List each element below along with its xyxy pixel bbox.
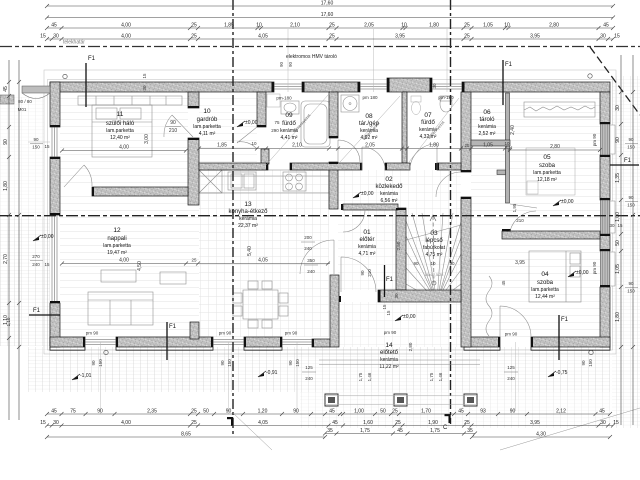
wall room11 bottom	[92, 187, 188, 196]
svg-text:80 / 80: 80 / 80	[18, 99, 32, 104]
svg-text:10: 10	[251, 141, 257, 146]
svg-text:30: 30	[432, 83, 437, 89]
svg-text:1,00: 1,00	[615, 212, 621, 222]
svg-text:30: 30	[615, 105, 621, 111]
svg-text:35: 35	[327, 428, 333, 434]
svg-text:3,95: 3,95	[530, 33, 540, 39]
svg-text:2,80: 2,80	[550, 144, 560, 150]
svg-text:45: 45	[51, 22, 57, 28]
section line B-B horizontal y=215.7	[0, 215, 640, 217]
wall exterior bottom-right seg1	[464, 337, 500, 347]
svg-text:75: 75	[274, 120, 280, 125]
svg-text:90: 90	[581, 360, 586, 366]
svg-text:09: 09	[285, 112, 293, 119]
svg-text:4,05: 4,05	[258, 258, 268, 264]
room label 05 szoba	[533, 154, 561, 183]
svg-text:25: 25	[191, 420, 197, 426]
svg-text:1,75: 1,75	[430, 428, 440, 434]
wall kitchen north seg3	[385, 163, 410, 170]
svg-text:10: 10	[401, 22, 407, 28]
svg-text:150: 150	[588, 359, 593, 367]
svg-text:előtető: előtető	[380, 350, 399, 356]
svg-text:90: 90	[3, 139, 9, 145]
sofa room 12	[88, 292, 153, 325]
svg-text:konyha-étkező: konyha-étkező	[228, 209, 268, 215]
svg-text:15: 15	[40, 33, 46, 39]
dim row bottom 3 left 8,65	[45, 431, 327, 439]
diagonal property line top right	[590, 47, 640, 115]
svg-text:25: 25	[395, 420, 401, 426]
plaster brackets under bottom walls	[50, 347, 85, 350]
svg-text:közlekedő: közlekedő	[375, 184, 403, 190]
level marker -0,91	[258, 373, 264, 377]
svg-text:150: 150	[295, 359, 300, 367]
svg-text:50: 50	[380, 408, 386, 414]
tv bench room 12	[160, 272, 186, 284]
svg-text:15: 15	[386, 310, 391, 316]
porch columns	[325, 394, 338, 406]
svg-text:F1: F1	[33, 308, 41, 314]
level marker -1,01	[72, 376, 78, 380]
svg-text:15: 15	[40, 420, 46, 426]
wall 10|09 lower	[261, 149, 269, 164]
svg-text:10: 10	[203, 108, 211, 115]
svg-text:25: 25	[191, 258, 197, 263]
svg-text:pm 90: pm 90	[384, 330, 397, 335]
svg-text:elektromos HMV tároló: elektromos HMV tároló	[286, 54, 337, 60]
svg-text:4,50: 4,50	[137, 261, 143, 271]
svg-text:45: 45	[599, 408, 605, 414]
svg-text:30: 30	[609, 223, 615, 228]
svg-text:150: 150	[32, 145, 40, 150]
svg-text:240: 240	[305, 376, 313, 381]
svg-text:90: 90	[288, 61, 293, 67]
wall entry bottom	[378, 290, 461, 302]
wall interior 09|08 upper	[329, 92, 338, 138]
wall stair left	[396, 208, 406, 290]
svg-text:45: 45	[458, 408, 464, 414]
svg-text:90: 90	[628, 281, 634, 286]
svg-text:kerámia: kerámia	[478, 124, 496, 130]
porch steps	[319, 360, 480, 365]
room label 06 tarolo	[478, 109, 496, 137]
svg-text:45: 45	[397, 428, 403, 434]
svg-text:1,10: 1,10	[6, 317, 11, 326]
wall exterior left lower corner	[50, 303, 60, 347]
svg-text:1,80: 1,80	[3, 181, 9, 191]
room label 01 eloter	[358, 229, 376, 257]
svg-text:1,46: 1,46	[438, 372, 443, 381]
svg-text:fürdő: fürdő	[282, 121, 296, 127]
room label 10 gardrob	[193, 108, 221, 137]
F1 marker bottom left	[166, 322, 168, 360]
svg-text:25: 25	[191, 22, 197, 28]
dim column left 2	[17, 60, 21, 420]
wall exterior bottom-left seg1	[50, 337, 85, 347]
svg-text:1,05: 1,05	[483, 143, 493, 149]
svg-text:90: 90	[91, 360, 96, 366]
svg-text:4,00: 4,00	[121, 33, 131, 39]
svg-text:17,60: 17,60	[321, 12, 334, 18]
svg-text:25: 25	[464, 143, 470, 148]
svg-text:11: 11	[117, 111, 124, 118]
wall exterior top segment C	[462, 82, 610, 92]
svg-text:90: 90	[226, 408, 232, 414]
window axis lines	[28, 29, 516, 414]
svg-text:50: 50	[203, 408, 209, 414]
svg-text:±0,00: ±0,00	[361, 191, 374, 197]
svg-text:30: 30	[394, 293, 399, 299]
svg-text:lam.parketta: lam.parketta	[193, 124, 221, 130]
svg-text:1,75: 1,75	[358, 372, 363, 381]
F1 marker top left	[85, 63, 87, 107]
wall exterior top segment B	[302, 82, 360, 92]
svg-text:1,85: 1,85	[217, 143, 227, 149]
svg-text:4,00: 4,00	[119, 145, 129, 151]
boiler room 08	[341, 95, 359, 112]
wall interior 09|08 lower	[329, 162, 338, 209]
svg-text:2,10: 2,10	[292, 143, 302, 149]
wall exterior bottom-left stub	[312, 339, 330, 347]
svg-text:14: 14	[385, 342, 393, 349]
wall exterior left middle	[50, 157, 60, 215]
bed room 05	[526, 148, 575, 195]
wall exterior top pier	[387, 78, 432, 92]
F1 marker left margin	[29, 314, 60, 316]
svg-text:210: 210	[169, 128, 178, 134]
wc room 07	[411, 96, 421, 115]
svg-text:15: 15	[613, 420, 619, 426]
dim row bottom 3 right 4,30	[470, 431, 612, 439]
svg-text:4,05: 4,05	[258, 33, 268, 39]
arch arc left	[22, 93, 50, 99]
door arcs	[64, 165, 92, 187]
svg-text:pm 90: pm 90	[285, 331, 298, 336]
svg-text:17,60: 17,60	[321, 0, 334, 6]
svg-text:-1,01: -1,01	[80, 373, 92, 379]
svg-text:02: 02	[385, 176, 393, 183]
svg-text:kerámia: kerámia	[358, 244, 376, 250]
curtain wardrobe room 04 alcove	[486, 276, 492, 336]
kitchen counter	[199, 170, 329, 193]
svg-text:15: 15	[44, 144, 50, 149]
room label 11 szuloi halo	[106, 111, 135, 141]
svg-text:45: 45	[501, 280, 506, 286]
svg-text:kerámia: kerámia	[239, 216, 257, 222]
svg-text:4,00: 4,00	[121, 420, 131, 426]
svg-text:01: 01	[363, 229, 371, 236]
svg-text:1,46: 1,46	[367, 372, 372, 381]
svg-text:2,50: 2,50	[396, 241, 401, 250]
tile floor corridor and entry	[338, 170, 461, 290]
svg-text:08: 08	[365, 113, 373, 120]
svg-text:10: 10	[504, 141, 510, 146]
wall 11|kitchen	[188, 138, 199, 205]
svg-text:35: 35	[467, 428, 473, 434]
stairs walk line	[430, 215, 436, 285]
svg-text:pm 180: pm 180	[362, 95, 378, 100]
svg-text:6,56 m²: 6,56 m²	[381, 198, 398, 204]
svg-text:1,75: 1,75	[360, 428, 370, 434]
svg-text:25: 25	[392, 408, 398, 414]
tile floor porch 14	[339, 302, 461, 347]
svg-text:4,00: 4,00	[121, 22, 131, 28]
terrace paving left margin	[0, 97, 44, 216]
svg-text:10: 10	[430, 261, 436, 266]
svg-text:1,75: 1,75	[429, 372, 434, 381]
svg-text:03: 03	[430, 230, 438, 237]
svg-text:2,80: 2,80	[549, 22, 559, 28]
svg-text:1,80: 1,80	[615, 312, 621, 322]
level marker room05	[553, 202, 559, 206]
level marker corridor	[353, 194, 359, 198]
svg-text:240: 240	[307, 269, 315, 274]
terrace paving right margin	[612, 76, 640, 428]
leader diagonal bottom left	[233, 413, 272, 450]
svg-text:-0,91: -0,91	[266, 370, 278, 376]
svg-text:05: 05	[543, 154, 551, 161]
svg-text:telekhatár: telekhatár	[63, 40, 85, 46]
svg-text:210: 210	[367, 269, 372, 277]
black window/door jambs	[50, 78, 610, 347]
svg-text:90: 90	[293, 408, 299, 414]
svg-text:30: 30	[600, 33, 606, 39]
room label 03 lepcso	[423, 230, 446, 258]
svg-text:1,85: 1,85	[224, 22, 234, 28]
svg-text:pm 90: pm 90	[86, 331, 99, 336]
room label 12 nappali	[103, 227, 131, 256]
svg-text:10: 10	[504, 22, 510, 28]
svg-text:270: 270	[32, 254, 40, 259]
wall porch left	[330, 275, 339, 347]
svg-text:szoba: szoba	[537, 280, 554, 286]
dim row top 3 openings	[45, 22, 615, 30]
bathtub room 09	[301, 101, 330, 147]
svg-text:12,18 m²: 12,18 m²	[537, 177, 557, 183]
svg-text:1,05: 1,05	[483, 22, 493, 28]
level marker -0,75	[548, 373, 554, 377]
room label 13 konyha-etkezo	[228, 201, 268, 229]
wall stair right upper	[461, 92, 471, 172]
svg-text:4,30: 4,30	[536, 431, 546, 437]
wall exterior bottom-left seg3	[244, 337, 282, 347]
sink room 07	[440, 96, 452, 112]
ceiling diagonal annotations	[60, 149, 188, 153]
svg-text:szoba: szoba	[539, 163, 556, 169]
svg-text:2,80: 2,80	[408, 342, 413, 351]
wall corridor|entry	[343, 204, 398, 210]
svg-text:200: 200	[304, 235, 312, 240]
svg-text:150: 150	[627, 289, 635, 294]
svg-text:16x17,5/28: 16x17,5/28	[425, 273, 444, 277]
wall stair right lower	[461, 197, 471, 347]
svg-text:3,00: 3,00	[144, 134, 150, 144]
svg-text:90: 90	[97, 408, 103, 414]
svg-text:350: 350	[307, 258, 315, 263]
parquet floor room 05	[471, 92, 600, 231]
svg-text:3,95: 3,95	[530, 420, 540, 426]
dim row bottom 2	[40, 420, 619, 428]
dim row top 1 overall	[45, 0, 615, 8]
svg-text:2,70: 2,70	[3, 254, 9, 264]
stairs room 03 winder treads	[406, 213, 461, 302]
svg-text:25: 25	[191, 408, 197, 414]
svg-text:F1: F1	[505, 62, 513, 68]
parquet floor room 12 nappali	[60, 196, 199, 337]
wall exterior top segment A	[50, 82, 274, 92]
svg-text:szülői háló: szülői háló	[106, 121, 135, 127]
svg-text:12,44 m²: 12,44 m²	[535, 294, 555, 300]
wall kitchen north seg4	[437, 163, 461, 170]
svg-text:45: 45	[332, 420, 338, 426]
svg-text:15: 15	[617, 223, 623, 228]
svg-text:2,05: 2,05	[365, 143, 375, 149]
level marker porch	[395, 317, 401, 321]
wall 05|04	[502, 231, 600, 239]
svg-text:210: 210	[516, 218, 524, 223]
wall kitchen north seg1	[199, 163, 268, 170]
svg-text:150: 150	[98, 359, 103, 367]
wall exterior left upper	[50, 82, 60, 127]
svg-text:nappali: nappali	[107, 236, 126, 242]
svg-text:8,65: 8,65	[181, 431, 191, 437]
svg-text:4,41 m²: 4,41 m²	[281, 135, 298, 141]
dim column left	[3, 60, 11, 420]
svg-text:150: 150	[227, 359, 232, 367]
svg-text:75: 75	[70, 408, 76, 414]
wall exterior right seg3	[600, 234, 610, 251]
wall exterior right seg2	[600, 155, 610, 200]
svg-text:lam.parketta: lam.parketta	[531, 287, 559, 293]
svg-text:gardrób: gardrób	[197, 117, 218, 123]
leader diagonal bottom right	[500, 408, 640, 450]
level marker room04	[568, 273, 574, 277]
svg-text:lépcső: lépcső	[425, 238, 443, 244]
svg-text:240: 240	[507, 376, 515, 381]
svg-text:fürdő: fürdő	[421, 120, 435, 126]
svg-text:pm-180: pm-180	[438, 95, 454, 100]
svg-text:4,00: 4,00	[119, 258, 129, 264]
svg-text:4,11 m²: 4,11 m²	[199, 131, 216, 137]
svg-text:90: 90	[628, 137, 634, 142]
room label 08 tar gep	[359, 113, 380, 141]
svg-text:pm 90: pm 90	[505, 332, 518, 337]
svg-text:1,35: 1,35	[615, 173, 621, 183]
section line C vertical x=450.5	[450, 0, 452, 424]
shower room 09	[267, 94, 280, 107]
svg-text:lam.parketta: lam.parketta	[106, 128, 134, 134]
wardrobe room 11	[78, 96, 182, 105]
svg-text:1,20: 1,20	[258, 408, 268, 414]
svg-text:04: 04	[541, 271, 549, 278]
svg-text:pm-180: pm-180	[276, 96, 292, 101]
parquet floor room 11	[60, 92, 188, 187]
dim column right 2	[631, 55, 635, 425]
svg-text:90: 90	[288, 360, 293, 366]
section line A-A vertical x=233	[232, 0, 234, 437]
dim row porch	[323, 428, 477, 436]
wall exterior bottom-left seg2	[116, 337, 213, 347]
wall exterior right seg4	[600, 287, 610, 347]
svg-text:25: 25	[191, 33, 197, 39]
svg-text:F1: F1	[169, 324, 177, 330]
svg-text:30: 30	[600, 420, 606, 426]
svg-text:13: 13	[244, 201, 252, 208]
tile floor room 13 konyha	[199, 170, 329, 337]
svg-text:±0,00: ±0,00	[245, 120, 258, 126]
dim row bottom 1	[45, 408, 612, 416]
dim column right	[615, 55, 623, 425]
wall kitchen north seg2	[290, 163, 362, 170]
svg-text:30: 30	[53, 33, 59, 39]
svg-text:90: 90	[360, 270, 365, 276]
sink room 09	[281, 101, 299, 114]
svg-text:C: C	[443, 425, 448, 431]
svg-text:90: 90	[170, 120, 176, 126]
svg-text:2,12: 2,12	[556, 408, 566, 414]
wall 08|07 partition	[402, 92, 407, 163]
reference circles	[63, 74, 67, 78]
svg-text:pm 90: pm 90	[592, 133, 597, 146]
room label 14 eloteto	[379, 342, 399, 370]
svg-text:F1: F1	[386, 277, 394, 283]
dim row top 4 rooms	[40, 33, 620, 41]
svg-text:2,35: 2,35	[147, 408, 157, 414]
svg-text:150: 150	[627, 203, 635, 208]
svg-text:4,05: 4,05	[258, 420, 268, 426]
svg-text:15: 15	[614, 33, 620, 39]
svg-text:125: 125	[305, 365, 313, 370]
svg-text:19,47 m²: 19,47 m²	[107, 250, 127, 256]
svg-text:290: 290	[271, 128, 279, 133]
svg-text:15: 15	[142, 73, 147, 79]
svg-text:93: 93	[480, 408, 486, 414]
wall 10|09	[257, 92, 266, 127]
svg-text:F1: F1	[624, 158, 632, 164]
svg-text:fabúrkolat: fabúrkolat	[423, 245, 446, 251]
room label 04 szoba	[531, 271, 559, 300]
svg-text:06: 06	[483, 109, 491, 116]
svg-text:45: 45	[3, 86, 9, 92]
room label 02 kozlekedo	[375, 176, 403, 204]
svg-text:125: 125	[507, 365, 515, 370]
garden wall stub left of building	[22, 86, 50, 93]
svg-text:30: 30	[53, 420, 59, 426]
bed room 04	[529, 251, 581, 302]
faint floor room 10	[199, 92, 257, 163]
svg-text:1,80: 1,80	[429, 22, 439, 28]
svg-text:2,40: 2,40	[510, 125, 516, 135]
svg-text:tároló: tároló	[479, 117, 495, 123]
svg-text:50: 50	[615, 240, 621, 246]
level marker gardrob	[237, 123, 243, 127]
svg-text:45: 45	[329, 408, 335, 414]
svg-text:25: 25	[329, 22, 335, 28]
terrace paving bottom band	[28, 347, 610, 392]
svg-text:M01: M01	[18, 107, 27, 112]
svg-text:kerámia: kerámia	[380, 191, 398, 197]
svg-text:240: 240	[304, 246, 312, 251]
svg-text:25: 25	[464, 33, 470, 39]
svg-text:2,05: 2,05	[364, 22, 374, 28]
svg-text:45: 45	[51, 408, 57, 414]
wall 11|10 stub	[188, 92, 199, 108]
svg-text:11,22 m²: 11,22 m²	[379, 364, 399, 370]
svg-text:4,75 m²: 4,75 m²	[426, 252, 443, 258]
svg-text:1,95: 1,95	[512, 203, 517, 212]
room label 09 furdo	[280, 112, 298, 141]
svg-text:1,80: 1,80	[429, 143, 439, 149]
